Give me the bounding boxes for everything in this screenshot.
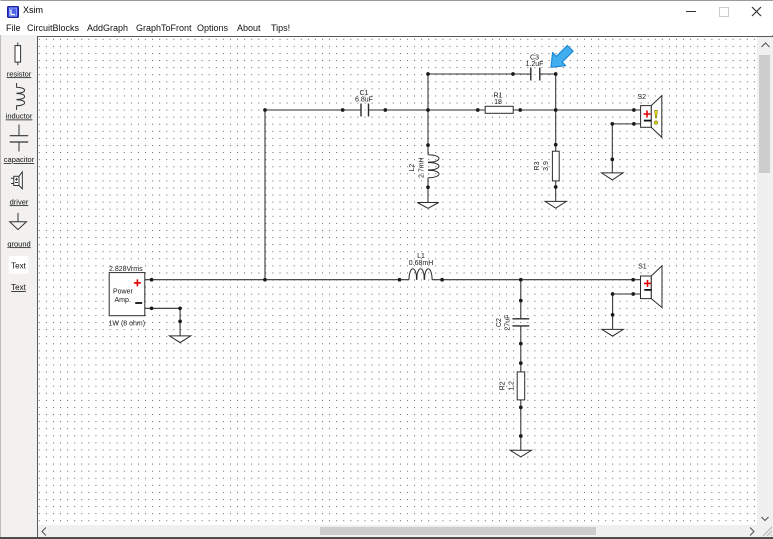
- svg-text:ground: ground: [7, 239, 30, 248]
- junction C2 pin 2: [519, 342, 523, 346]
- wire left vertical from main to amp: [264, 110, 266, 280]
- svg-text:driver: driver: [10, 197, 29, 206]
- junction node C main wire / R3 branch: [554, 108, 558, 112]
- junction S2 pin -: [632, 122, 636, 126]
- ground under S1: [602, 329, 623, 336]
- svg-text:capacitor: capacitor: [4, 155, 35, 164]
- junction R3 pin 1: [554, 143, 558, 147]
- svg-text:R3: R3: [534, 161, 541, 170]
- junction R1 pin 2: [518, 108, 522, 112]
- horizontal scrollbar: [38, 525, 757, 537]
- dark border around canvas area: [37, 36, 773, 37]
- svg-text:1.2: 1.2: [509, 381, 516, 391]
- svg-text:L1: L1: [417, 253, 425, 260]
- inductor L1 coil: [409, 269, 432, 280]
- junction C2 pin 1: [519, 299, 523, 303]
- svg-text:R2: R2: [500, 381, 507, 390]
- svg-text:18: 18: [494, 99, 502, 106]
- label R2 (rotated): [500, 381, 516, 391]
- junction L2 pin 2: [426, 185, 430, 189]
- svg-text:1W (8 ohm): 1W (8 ohm): [109, 321, 146, 328]
- wire top branch right of C3: [540, 73, 556, 75]
- labels: [355, 55, 647, 391]
- wire vertical C3 right down through R3: [555, 74, 557, 201]
- wire S1 minus: [613, 294, 641, 329]
- toolbar icons svg: [0, 36, 38, 296]
- wire C2 branch top: [520, 280, 522, 319]
- capacitor C1 plates: [361, 104, 369, 117]
- speaker S2: [641, 96, 662, 138]
- junction node A at C1 left wire corner: [263, 108, 267, 112]
- junction R2 pin 1: [519, 361, 523, 365]
- Text tool (plain on white): [9, 256, 28, 274]
- svg-text:S1: S1: [638, 264, 647, 271]
- title bar: [0, 1, 773, 22]
- amp U1 box: [109, 273, 145, 316]
- label R3 (rotated): [534, 161, 550, 171]
- ground under R2: [510, 450, 531, 457]
- svg-text:C2: C2: [496, 318, 503, 327]
- vertical scrollbar: [757, 37, 773, 525]
- ground under R3: [545, 201, 566, 208]
- wire L1 to S1: [432, 279, 640, 281]
- junction S1 pin -: [631, 292, 635, 296]
- minimize: [686, 11, 696, 12]
- speaker S1: [641, 266, 663, 308]
- maximize (disabled): [719, 7, 729, 17]
- wire amp minus to ground: [145, 308, 180, 336]
- svg-text:Text: Text: [11, 283, 26, 292]
- svg-text:Amp.: Amp.: [115, 297, 131, 304]
- junction C1 pin 1: [341, 108, 345, 112]
- wire vertical down to L2: [427, 110, 429, 155]
- window outer borders: [0, 0, 773, 1]
- wire L2 bottom to ground: [427, 178, 429, 203]
- ground under S2: [602, 173, 623, 180]
- svg-text:inductor: inductor: [6, 112, 33, 121]
- left toolbar panel: [1, 35, 37, 537]
- junction L2 pin 1: [426, 143, 430, 147]
- label C2 (rotated): [496, 315, 512, 331]
- svg-text:0.68mH: 0.68mH: [409, 260, 434, 267]
- junction node B main wire / L2 branch: [426, 108, 430, 112]
- junction S1 ground wire node: [611, 313, 615, 317]
- junction S2 pin +: [632, 108, 636, 112]
- junction C3 pin 2 / node C corner: [554, 72, 558, 76]
- resistor R2 body: [517, 372, 525, 400]
- close: [750, 5, 763, 18]
- svg-text:S2: S2: [637, 94, 646, 101]
- junction amp pin -: [150, 306, 154, 310]
- junction amp pin +: [150, 278, 154, 282]
- junction node B top corner: [426, 72, 430, 76]
- resistor R1 body: [485, 106, 513, 113]
- driver tool icon: [11, 172, 22, 189]
- wire S2 minus: [612, 124, 640, 173]
- ground tool icon: [10, 213, 27, 230]
- app icon: [7, 6, 19, 18]
- inductor tool icon: [17, 83, 25, 110]
- junction R2 ground pin: [519, 434, 523, 438]
- ground under L2: [417, 203, 438, 209]
- corner resize grip: [757, 525, 773, 537]
- svg-text:resistor: resistor: [7, 69, 32, 78]
- svg-text:Power: Power: [113, 289, 134, 296]
- svg-text:3.9: 3.9: [543, 161, 550, 171]
- svg-text:2.828Vrms: 2.828Vrms: [109, 266, 143, 273]
- junction node D amp output / left branch: [263, 278, 267, 282]
- junction S1 minus wire corner: [611, 292, 615, 296]
- svg-text:2.7mH: 2.7mH: [418, 157, 425, 178]
- capacitor C2 plates: [512, 319, 529, 326]
- junction R1 pin 1: [476, 108, 480, 112]
- wire amp output to L1: [145, 279, 409, 281]
- junction C3 pin 1: [511, 72, 515, 76]
- capacitor C3 plates: [531, 68, 540, 81]
- wire C2 through R2 to ground: [520, 326, 522, 451]
- ground under amp: [170, 336, 191, 343]
- junction R3 pin 2: [554, 185, 558, 189]
- junction C1 pin 2: [383, 108, 387, 112]
- resistor tool icon: [15, 43, 21, 66]
- junction S2 ground wire node: [610, 158, 614, 162]
- svg-text:6.8uF: 6.8uF: [355, 97, 373, 104]
- junction S1 pin +: [631, 278, 635, 282]
- wire main horizontal left of C1: [265, 109, 361, 111]
- junction amp ground pin: [178, 320, 182, 324]
- junction L1 pin 2: [440, 278, 444, 282]
- label L2 (rotated): [409, 157, 425, 178]
- junction node E main wire / C2 branch: [519, 278, 523, 282]
- junction amp minus wire corner: [178, 306, 182, 310]
- menu bar: [0, 22, 773, 35]
- junction R2 pin 2: [519, 406, 523, 410]
- junction L1 pin 1: [398, 278, 402, 282]
- wire main horizontal C1 to S2: [369, 109, 641, 111]
- inductor L2 coil: [428, 155, 439, 178]
- wire top branch left of C3: [428, 73, 531, 75]
- wire vertical node A to top branch: [427, 74, 429, 110]
- svg-text:1.2uF: 1.2uF: [526, 61, 544, 68]
- svg-text:Text: Text: [11, 261, 26, 270]
- cursor arrow: [551, 46, 573, 68]
- svg-text:27uF: 27uF: [505, 315, 512, 331]
- resistor R3 body: [552, 151, 559, 181]
- capacitor tool icon: [10, 125, 29, 152]
- junction S2 minus wire corner: [610, 122, 614, 126]
- svg-text:L2: L2: [409, 164, 416, 172]
